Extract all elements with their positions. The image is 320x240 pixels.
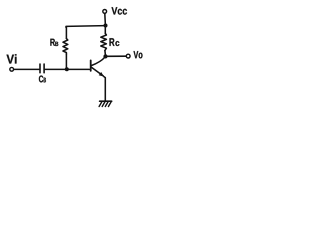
ground hatch 4 — [108, 102, 111, 107]
transistor Q1 emitter arrowhead — [99, 72, 104, 77]
wire Vi to CB left plate — [14, 68, 39, 70]
ground hatch 2 — [102, 102, 105, 107]
wire Vcc junction to RC top — [104, 26, 106, 34]
node Vo terminal — [126, 54, 130, 58]
label R_of_RB — [50, 39, 55, 46]
resistor RB zigzag — [63, 39, 68, 55]
ground hatch 1 — [99, 102, 102, 107]
wire RC bottom to collector junction — [104, 51, 107, 56]
label R_of_RC — [110, 38, 115, 46]
node base junction dot — [65, 67, 69, 71]
label Vi — [7, 54, 17, 63]
ground bar — [100, 100, 112, 102]
node Vcc junction dot — [104, 24, 108, 28]
node Vi terminal — [10, 67, 14, 71]
label C_of_CB — [39, 76, 43, 83]
capacitor CB right plate — [43, 64, 45, 73]
label Vcc — [112, 7, 128, 14]
wire emitter corner to ground — [104, 77, 105, 101]
node collector junction dot — [103, 54, 107, 58]
label B_of_RB — [55, 42, 58, 46]
label Vo — [134, 51, 143, 58]
label c_of_RC — [115, 41, 119, 46]
wire top rail RB to Vcc junction — [66, 26, 105, 28]
transistor Q1 base bar — [90, 60, 92, 71]
node Vcc terminal — [103, 10, 107, 14]
label B_of_CB — [44, 78, 46, 83]
transistor Q1 emitter lead — [91, 67, 103, 76]
wire RB bottom to base junction — [65, 54, 67, 69]
wire CB to base node to transistor base — [45, 68, 90, 70]
resistor RC zigzag — [101, 34, 107, 51]
transistor Q1 collector lead — [91, 57, 105, 66]
wire Vcc stem — [104, 13, 107, 25]
wire RB top vertical — [65, 27, 67, 39]
capacitor CB left plate — [39, 64, 41, 73]
wire collector junction to Vo terminal — [107, 55, 126, 57]
ground hatch 3 — [105, 102, 108, 107]
